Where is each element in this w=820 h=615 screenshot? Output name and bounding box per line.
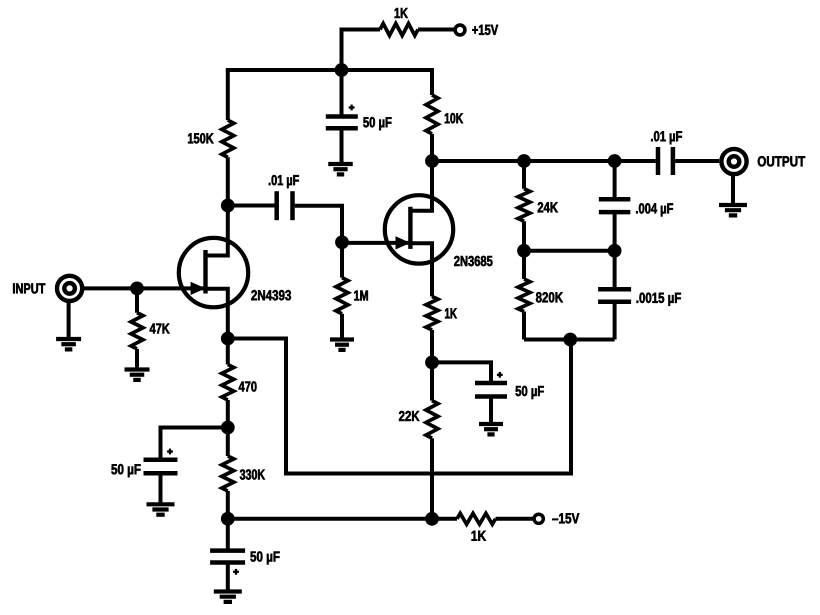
node M (24K bottom) [517, 244, 531, 258]
label .01uF-out [651, 131, 682, 144]
resistor R-1K-top label 1K [395, 8, 408, 18]
terminal +15V [455, 25, 465, 35]
terminal -15V [534, 514, 543, 523]
wire .0015uF top lead [613, 251, 617, 289]
label .0015uF [637, 293, 681, 306]
resistor R-24K body [518, 189, 530, 222]
resistor R-1K-source body [426, 296, 438, 330]
wire 24K bottom lead [522, 221, 526, 251]
wire 50uF-top lead [340, 70, 344, 117]
ground below OUTPUT [719, 205, 747, 215]
wire 10K top lead [430, 70, 434, 95]
label INPUT [13, 283, 45, 293]
ground below 50uF-mid [479, 424, 503, 434]
node F (gate Q2 / 1M) [335, 235, 349, 249]
wire to 50uF-left [161, 428, 228, 460]
wire 24K top lead [522, 161, 526, 189]
ground below 47K [125, 370, 150, 380]
wire 1K to +15V terminal [418, 28, 455, 32]
node G (input / 47K) [130, 282, 144, 296]
label Q2 2N3685 [454, 256, 492, 266]
ground below 1M [330, 340, 354, 350]
wire OUTPUT to ground [731, 173, 735, 205]
resistor R-47K label [150, 324, 170, 334]
wire 470 bottom lead [226, 400, 230, 428]
label 50uF-bottom [250, 551, 279, 564]
wire to 50uF-mid [432, 362, 491, 383]
resistor R-1K-bottom body [457, 513, 496, 524]
resistor R-1K-bottom label [472, 531, 486, 541]
node O (feedback junction) [563, 333, 577, 347]
node K (22K / 1K / bottom rail) [425, 512, 439, 526]
terminal OUTPUT [721, 149, 746, 174]
wire 47K to ground [135, 349, 139, 370]
resistor R-1K-top body [380, 24, 418, 36]
node L (source Q2 / 22K / 50uF) [425, 356, 439, 370]
ground below 50uF-bottom [214, 592, 242, 602]
resistor R-1M label [354, 291, 368, 301]
wire 1K to -15V terminal [496, 517, 534, 521]
capacitor C-50uF-left plates [144, 460, 178, 474]
wire top rail [226, 68, 434, 72]
label 50uF-top [363, 117, 391, 130]
resistor R-22K label [399, 411, 419, 421]
capacitor C-01uF-mid plates [277, 191, 293, 220]
wire cap to gate Q2 node [295, 206, 342, 236]
resistor R-330K body [222, 456, 234, 491]
resistor R-22K body [426, 401, 438, 439]
capacitor C-50uF-top plates [326, 117, 358, 129]
wire 1M to ground [340, 314, 344, 340]
wire 47K top lead [135, 288, 139, 312]
wire 1M top lead [340, 242, 344, 277]
label -15V [552, 513, 579, 523]
node E (.004uF top) [608, 154, 622, 168]
transistor Q1 2N4393 [137, 206, 248, 339]
wire 150K bottom lead [226, 157, 230, 205]
plus mark 50uF-mid [497, 372, 503, 378]
plus mark 50uF-bottom [233, 569, 239, 575]
ground below INPUT [56, 339, 81, 349]
label 50uF-left [111, 464, 140, 477]
resistor R-150K body [222, 120, 234, 157]
node A (top rail / +15V) [335, 63, 349, 77]
capacitor C-004uF plates [599, 199, 631, 212]
capacitor C-50uF-bottom plates [210, 551, 245, 563]
wire .004uF top lead [613, 161, 617, 199]
wire 150K top lead [226, 70, 230, 120]
wire 50uF-mid to ground [489, 397, 493, 425]
wire 50uF-left to ground [159, 473, 163, 504]
wire feedback run [228, 339, 571, 474]
wire INPUT to gate node [80, 286, 137, 290]
label Q1 2N4393 [251, 290, 291, 300]
label .004uF [636, 203, 673, 216]
node N (.004uF bottom) [608, 244, 622, 258]
wire 820K bottom lead [522, 312, 526, 340]
node B (drain Q1 / 150K / cap) [221, 199, 235, 213]
capacitor C-01uF-out plates [658, 147, 673, 175]
resistor R-330K label [240, 469, 265, 479]
transistor Q2 2N3685 [342, 161, 453, 266]
wire 470 top lead [226, 339, 230, 365]
wire cap to OUTPUT [675, 159, 719, 163]
capacitor C-50uF-mid plates [475, 383, 507, 397]
resistor R-24K label [538, 202, 558, 212]
wire bottom rail to 1K [432, 517, 457, 521]
resistor R-1M body [336, 278, 348, 314]
resistor R-150K label [188, 133, 214, 143]
wire 820K-.0015 junction [524, 338, 615, 342]
node I (470 / 330K / 50uF-left) [221, 421, 235, 435]
node C (drain Q2 / output) [425, 154, 439, 168]
wire source Q2 lead [430, 266, 434, 297]
wire 50uF-top to ground [340, 128, 344, 164]
wire drain Q1 to cap [228, 204, 275, 208]
wire 10K bottom lead [430, 134, 434, 161]
node D (24K top) [517, 154, 531, 168]
plus mark 50uF-left [167, 449, 173, 455]
wire bottom rail [228, 517, 432, 521]
wire INPUT to ground [67, 300, 71, 339]
resistor R-820K label [536, 292, 563, 302]
resistor R-820K body [518, 279, 530, 312]
wire 22K bottom lead [430, 438, 434, 519]
node J (330K / bottom rail / 50uF-bottom) [221, 512, 235, 526]
wire .004uF bottom lead [613, 212, 617, 251]
ground below 50uF-top [328, 164, 353, 174]
wire output rail [432, 159, 656, 163]
wire 50uF-bottom lead [226, 519, 230, 551]
resistor R-470 label [239, 381, 257, 391]
resistor R-470 body [222, 365, 234, 401]
label .01uF-mid [269, 175, 299, 188]
wire 50uF-bottom to ground [226, 563, 230, 592]
wire .0015uF bottom lead [613, 302, 617, 340]
plus mark 50uF-top [349, 105, 355, 111]
wire 820K top lead [522, 251, 526, 279]
capacitor C-0015uF plates [598, 289, 631, 302]
wire +15V riser [342, 30, 381, 71]
wire 24K-.004 junction [524, 249, 615, 253]
node H (source Q1 / 470 / feedback) [221, 332, 235, 346]
label +15V [472, 25, 498, 35]
ground below 50uF-left [147, 504, 175, 514]
wire 1K-source bottom lead [430, 330, 434, 363]
resistor R-1K-source label [445, 308, 457, 318]
terminal INPUT [57, 276, 82, 301]
label 50uF-mid [516, 386, 544, 399]
resistor R-47K body [131, 313, 143, 349]
resistor R-330K top lead [226, 428, 230, 457]
label OUTPUT [758, 156, 805, 166]
resistor R-10K body [426, 95, 438, 134]
wire 22K top lead [430, 362, 434, 400]
wire 330K bottom lead [226, 491, 230, 519]
resistor R-10K label [445, 113, 463, 123]
